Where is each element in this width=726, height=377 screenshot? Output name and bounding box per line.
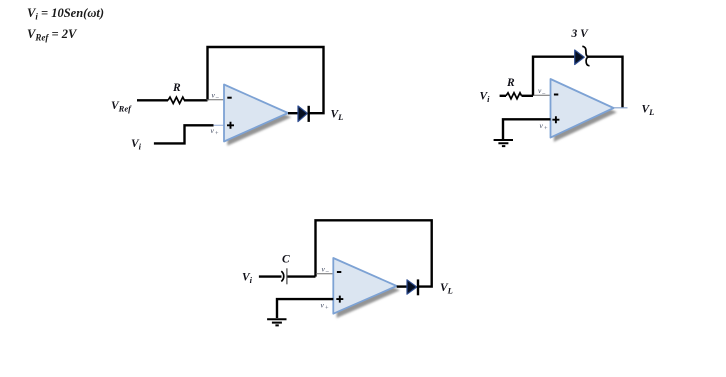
diode D1	[298, 106, 307, 122]
op-amp U3	[333, 258, 396, 314]
wire thin output stub U2	[614, 107, 628, 109]
wire ground to non-inverting input U2	[503, 119, 551, 139]
resistor R2	[506, 93, 522, 99]
op-amp U3 plus sign	[336, 296, 343, 303]
wire feedback loop C1: up, across, down to output node	[208, 47, 324, 113]
wire feedback loop C2 left rise to zener	[533, 57, 575, 96]
wire Vi to resistor R2	[500, 95, 506, 97]
wire U1 output to diode D1	[288, 112, 298, 114]
op-amp U2	[551, 79, 614, 138]
wire thin stub to inverting input U1	[207, 99, 224, 101]
resistor R1	[168, 97, 184, 103]
ground symbol circuit 3	[267, 319, 286, 325]
op-amp U2 plus sign	[552, 116, 559, 123]
op-amp U2 shadow	[554, 83, 617, 142]
wire feedback loop C3: up, across, down to output node	[316, 220, 432, 286]
op-amp U1 minus sign	[227, 97, 231, 99]
wire U3 output to diode D3	[397, 285, 407, 287]
svg-text:C: C	[282, 254, 290, 266]
zener diode Z1	[575, 50, 585, 65]
zener diode Z1 cathode curly bar	[582, 46, 589, 66]
svg-text:Vi = 10Sen(ωt): Vi = 10Sen(ωt)	[27, 6, 104, 22]
svg-text:R: R	[506, 77, 515, 89]
wire Vi to non-inverting input U1	[154, 125, 214, 143]
op-amp U3 shadow	[337, 262, 400, 318]
svg-text:VRef = 2V: VRef = 2V	[27, 27, 78, 43]
capacitor C1 curved plate	[281, 271, 283, 281]
wire capacitor C1 to node v- junction	[288, 275, 316, 277]
wire resistor R1 to node v- junction	[184, 99, 208, 101]
wire thin stub to non-inverting input U1	[214, 124, 225, 126]
op-amp U3 minus sign	[337, 271, 341, 273]
wire zener Z1 to feedback right drop	[588, 57, 623, 108]
op-amp U1 plus sign	[227, 122, 234, 129]
diode D3	[407, 280, 417, 294]
ground symbol circuit 2	[494, 140, 513, 146]
op-amp U1 shadow	[227, 89, 291, 146]
wire thin stub to inverting input U3	[316, 273, 333, 275]
svg-text:+: +	[544, 126, 548, 132]
svg-text:+: +	[325, 306, 329, 312]
diode D1 cathode bar	[308, 106, 310, 122]
svg-text:+: +	[215, 131, 219, 137]
wire thin stub to inverting input U2	[534, 94, 551, 96]
wire ground to non-inverting input U3	[277, 299, 333, 318]
wire VRef to resistor R1	[137, 99, 168, 101]
svg-text:R: R	[172, 82, 181, 94]
op-amp U2 minus sign	[554, 94, 558, 96]
svg-text:3 V: 3 V	[571, 28, 590, 40]
wire resistor R2 to node v- junction	[522, 95, 534, 97]
op-amp U1	[224, 85, 288, 142]
diode D3 cathode bar	[417, 279, 419, 295]
capacitor C1 straight plate	[286, 268, 288, 284]
wire Vi to capacitor C1	[259, 275, 282, 277]
